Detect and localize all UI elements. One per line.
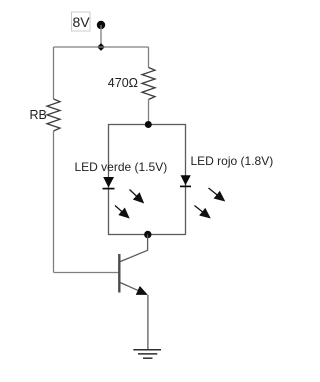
junction dot on top rail (97, 43, 105, 51)
wire top rail (54, 46, 149, 48)
wire emitter vertical (147, 295, 149, 350)
node LED parallel box (109, 125, 186, 235)
transistor Q1 (119, 250, 148, 294)
junction dot box bottom (144, 231, 151, 238)
wire left branch upper (53, 47, 55, 99)
wire base lead (54, 272, 119, 274)
svg-text:LED verde (1.5V): LED verde (1.5V) (75, 160, 168, 174)
junction dot box top (145, 121, 152, 128)
arrow verde lower (115, 206, 129, 218)
wire from 8V dot to top rail (100, 25, 102, 47)
arrow rojo upper (209, 188, 225, 201)
wire right branch upper (148, 47, 150, 68)
wire left branch lower (53, 131, 55, 273)
diode D1 LED verde (103, 177, 115, 189)
resistor 470ohm (142, 68, 155, 100)
transistor emitter lead with arrow (120, 283, 146, 295)
diode D2 LED rojo (180, 175, 191, 186)
arrow rojo lower (195, 206, 210, 218)
arrow verde upper (130, 190, 144, 203)
resistor RB (47, 99, 60, 131)
node 8V label box (72, 12, 91, 31)
svg-text:LED rojo (1.8V): LED rojo (1.8V) (191, 154, 274, 168)
wire collector vertical (147, 235, 149, 251)
ground (133, 350, 161, 358)
transistor collector lead (120, 250, 147, 261)
svg-text:8V: 8V (72, 14, 90, 30)
wire from resistor to LED box (148, 100, 150, 125)
svg-text:470Ω: 470Ω (108, 76, 138, 90)
svg-text:RB: RB (30, 108, 47, 122)
transistor base bar (118, 254, 120, 293)
node 8V terminal dot (97, 21, 105, 29)
